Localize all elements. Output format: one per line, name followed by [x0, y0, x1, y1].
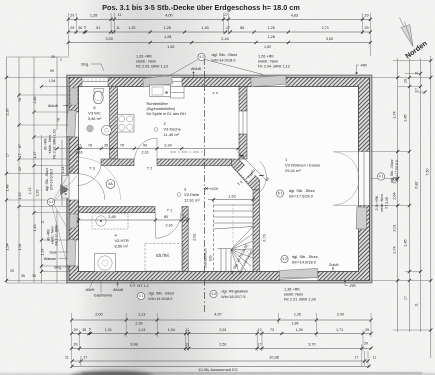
- svg-text:2: 2: [80, 144, 82, 148]
- stair treads upper: [214, 204, 254, 206]
- svg-text:Pos. 3.1 bis 3-5 Stb.-Decke üb: Pos. 3.1 bis 3-5 Stb.-Decke über Erdgesc…: [102, 3, 300, 12]
- svg-text:2,71: 2,71: [322, 26, 329, 30]
- svg-text:TT 2.06: TT 2.06: [385, 197, 389, 209]
- svg-text:Abluft: Abluft: [191, 67, 202, 71]
- svg-text:V3 Diele: V3 Diele: [184, 192, 200, 197]
- leader lines from 4.2: [167, 60, 198, 78]
- door T4 arc (diagonal): [260, 161, 267, 192]
- svg-text:17: 17: [404, 296, 408, 300]
- bottom scan shadow: [0, 370, 435, 375]
- section line (dash-dot vertical): [204, 58, 206, 312]
- svg-text:V3 Küche: V3 Küche: [164, 127, 182, 132]
- RK box right wall below door: [356, 207, 367, 229]
- left dim verticals: [6, 57, 8, 283]
- svg-text:1,52: 1,52: [228, 195, 235, 199]
- svg-text:11: 11: [118, 13, 122, 17]
- svg-text:78: 78: [57, 118, 61, 122]
- svg-text:Abluft: Abluft: [48, 104, 59, 108]
- svg-text:10,96₅ Aussenmaß EG: 10,96₅ Aussenmaß EG: [198, 367, 238, 372]
- svg-text:2,45: 2,45: [404, 114, 408, 121]
- svg-text:29: 29: [364, 342, 368, 346]
- svg-text:1,13: 1,13: [138, 312, 145, 316]
- RK box bottom window: [279, 268, 317, 279]
- svg-text:2,00: 2,00: [95, 312, 102, 316]
- section line horizontal stub: [170, 151, 205, 153]
- svg-text:8,50 m²: 8,50 m²: [115, 244, 129, 249]
- svg-text:V3 HTR: V3 HTR: [115, 238, 129, 243]
- circle 4.2 bottom + label: [281, 255, 288, 262]
- svg-text:3,00: 3,00: [326, 37, 333, 41]
- circle 4.1 left + rotated label: [47, 198, 54, 205]
- svg-text:dgl. Stb. -Sturz: dgl. Stb. -Sturz: [390, 159, 394, 182]
- north arrow: [400, 18, 414, 47]
- svg-text:4.1: 4.1: [139, 294, 144, 298]
- french door opening right: [359, 152, 370, 206]
- svg-text:2,34: 2,34: [164, 143, 171, 147]
- svg-text:2,81: 2,81: [193, 233, 197, 240]
- svg-text:V3 WC: V3 WC: [88, 111, 101, 116]
- svg-text:2,51: 2,51: [219, 343, 226, 347]
- svg-text:2,26: 2,26: [6, 109, 10, 116]
- svg-text:30: 30: [78, 26, 82, 30]
- svg-text:87: 87: [18, 144, 22, 148]
- bottom dim row 4: [72, 360, 368, 362]
- svg-text:4,83: 4,83: [291, 13, 298, 17]
- stair lower treads: [218, 248, 232, 250]
- svg-text:1,14: 1,14: [41, 249, 45, 256]
- diagonal dim line T4: [238, 152, 268, 182]
- svg-text:NT 1.2: NT 1.2: [137, 284, 148, 288]
- svg-text:80: 80: [164, 215, 168, 219]
- svg-text:22: 22: [18, 167, 22, 171]
- svg-text:1,13: 1,13: [28, 188, 32, 195]
- window WC top: [82, 78, 108, 87]
- small box HTR left wall: [70, 214, 78, 228]
- svg-text:11: 11: [41, 220, 45, 224]
- svg-text:Wasser: Wasser: [44, 257, 57, 261]
- svg-text:11: 11: [415, 71, 419, 75]
- floor drain WC: [87, 125, 94, 132]
- window WC left: [69, 112, 79, 137]
- kitchen counter right of sink: [171, 87, 185, 93]
- svg-text:3,46 m²: 3,46 m²: [88, 116, 102, 121]
- svg-text:29: 29: [51, 55, 55, 59]
- door T2 arc: [135, 138, 158, 161]
- stair walk line: [233, 204, 250, 252]
- svg-text:1,84: 1,84: [291, 322, 298, 326]
- svg-text:1,28: 1,28: [164, 35, 171, 39]
- svg-text:FE 2.03 .BRH 1,13: FE 2.03 .BRH 1,13: [136, 65, 168, 69]
- wall right of T1 door: [182, 207, 188, 272]
- svg-text:29: 29: [364, 26, 368, 30]
- svg-text:1,48: 1,48: [6, 185, 10, 192]
- svg-text:86: 86: [240, 26, 244, 30]
- svg-text:Abluft: Abluft: [113, 288, 124, 292]
- svg-text:2,74: 2,74: [392, 246, 396, 253]
- svg-text:1,26 +RK: 1,26 +RK: [136, 55, 152, 59]
- svg-text:8b +RK: 8b +RK: [44, 137, 48, 149]
- bottom dim row 3: [72, 347, 371, 349]
- svg-text:17: 17: [258, 328, 262, 332]
- kitchen sink unit: [150, 85, 171, 97]
- svg-text:2,44: 2,44: [221, 37, 228, 41]
- svg-text:29: 29: [74, 343, 78, 347]
- svg-text:T 2: T 2: [147, 166, 153, 171]
- svg-text:1,27: 1,27: [33, 152, 37, 159]
- svg-text:29: 29: [404, 79, 408, 83]
- french door leaf arcs: [333, 152, 359, 178]
- svg-text:V3 Wohnen / Essen: V3 Wohnen / Essen: [285, 163, 320, 168]
- RK box wohnen window: [251, 75, 287, 86]
- svg-text:17: 17: [355, 355, 359, 359]
- svg-text:1,38 +RK: 1,38 +RK: [284, 288, 300, 292]
- svg-text:1,54: 1,54: [6, 243, 10, 250]
- svg-text:dgl. Stb. -Sturz: dgl. Stb. -Sturz: [212, 52, 238, 57]
- svg-text:1,26: 1,26: [268, 26, 275, 30]
- svg-text:b/h=18.0/17.5: b/h=18.0/17.5: [222, 294, 246, 299]
- svg-text:1,54: 1,54: [49, 79, 56, 83]
- entrance direction triangle: [61, 185, 69, 195]
- svg-text:b/h=14.0/18.0: b/h=14.0/18.0: [212, 58, 237, 63]
- svg-text:2,16: 2,16: [166, 224, 173, 228]
- svg-text:2,00: 2,00: [337, 312, 344, 316]
- svg-text:17: 17: [415, 88, 419, 92]
- svg-text:12,91 m²: 12,91 m²: [184, 198, 200, 203]
- svg-text:Deckenloch: Deckenloch: [204, 248, 208, 267]
- svg-text:17: 17: [224, 13, 228, 17]
- svg-text:dgl. Stb. -Sturz: dgl. Stb. -Sturz: [289, 188, 315, 193]
- svg-text:b/h=14.0/18.0: b/h=14.0/18.0: [292, 260, 317, 265]
- svg-text:1,13: 1,13: [138, 328, 145, 332]
- outer insulation line: [67, 76, 372, 283]
- interior wall WC right: [110, 87, 118, 160]
- svg-text:T 1: T 1: [167, 208, 173, 213]
- svg-text:4.2: 4.2: [199, 55, 204, 59]
- svg-text:2,45: 2,45: [404, 239, 408, 246]
- svg-text:elektr.: Nein: elektr.: Nein: [258, 60, 278, 64]
- svg-text:73: 73: [270, 328, 274, 332]
- bottom dim row 1: [72, 319, 371, 321]
- svg-text:dgl. Stb. -Sturz: dgl. Stb. -Sturz: [149, 291, 175, 296]
- svg-text:elektr: Nein: elektr: Nein: [380, 194, 384, 212]
- svg-text:AWH: AWH: [86, 288, 95, 292]
- svg-text:7,50: 7,50: [426, 168, 430, 175]
- top dim row 2: [68, 31, 370, 33]
- svg-text:6,82: 6,82: [415, 181, 419, 188]
- circle 5.1 + sturz label: [276, 190, 283, 197]
- svg-text:5A: 5A: [108, 182, 113, 186]
- svg-text:dgl. Ringbalken: dgl. Ringbalken: [222, 289, 249, 294]
- svg-text:1,13: 1,13: [61, 167, 65, 174]
- top dim row 3: [68, 42, 370, 44]
- interior wall kitchen south: [157, 159, 231, 166]
- stove: [118, 115, 135, 133]
- svg-text:4.4: 4.4: [211, 292, 216, 296]
- svg-text:11: 11: [185, 328, 189, 332]
- svg-text:dgl. Stb. -Sturz: dgl. Stb. -Sturz: [292, 254, 318, 259]
- svg-text:EG: EG: [209, 255, 213, 260]
- svg-text:1,28: 1,28: [90, 13, 97, 17]
- svg-text:2,85: 2,85: [108, 215, 115, 219]
- svg-text:2,39: 2,39: [135, 322, 142, 326]
- top dim row 1: [68, 18, 370, 20]
- washing machine: [95, 254, 116, 272]
- svg-text:-RR: -RR: [349, 284, 356, 288]
- svg-text:b/h=17,5/18.0: b/h=17,5/18.0: [395, 160, 399, 182]
- room interior white fill: [69, 78, 370, 281]
- svg-text:75: 75: [120, 143, 124, 147]
- svg-text:11,40 m²: 11,40 m²: [164, 132, 180, 137]
- svg-text:3,00: 3,00: [106, 37, 113, 41]
- window kitchen top: [146, 78, 182, 87]
- svg-text:29: 29: [74, 328, 78, 332]
- svg-text:elektr: Nein: elektr: Nein: [284, 293, 303, 297]
- bottom dim row 2: [72, 333, 371, 335]
- svg-text:-RR: -RR: [360, 64, 367, 68]
- svg-text:2,01: 2,01: [392, 224, 396, 231]
- svg-text:5: 5: [89, 328, 91, 332]
- svg-text:1,13: 1,13: [33, 225, 37, 232]
- interior wall south of WC (T3 segment): [101, 159, 134, 166]
- svg-text:1,40: 1,40: [202, 26, 209, 30]
- svg-text:29: 29: [365, 328, 369, 332]
- svg-text:29: 29: [70, 13, 74, 17]
- svg-text:FE 2.10 .BRH: FE 2.10 .BRH: [55, 224, 59, 245]
- diagonal wall T4: [231, 159, 259, 190]
- interior dim line HTR: [79, 219, 189, 221]
- svg-text:1,04: 1,04: [168, 328, 175, 332]
- HTR north wall: [79, 207, 156, 213]
- svg-text:Zuluft: Zuluft: [329, 263, 339, 267]
- svg-text:Strg.: Strg.: [81, 63, 89, 67]
- svg-text:4.2: 4.2: [282, 257, 287, 261]
- svg-text:±0,00: ±0,00: [210, 187, 218, 191]
- svg-text:2,16: 2,16: [76, 151, 83, 155]
- kitchen / wohnen wall upper: [239, 87, 247, 112]
- svg-text:91: 91: [96, 26, 100, 30]
- svg-text:17: 17: [226, 26, 230, 30]
- svg-text:1,26: 1,26: [294, 312, 301, 316]
- svg-text:1,71: 1,71: [336, 328, 343, 332]
- right dim verticals: [397, 58, 399, 332]
- svg-text:29: 29: [364, 13, 368, 17]
- stair right wall: [253, 190, 260, 272]
- svg-text:11: 11: [185, 342, 189, 346]
- svg-text:FE 2.02 .BRH 1,50: FE 2.02 .BRH 1,50: [53, 129, 57, 158]
- svg-text:35: 35: [32, 274, 36, 278]
- circle 4.2 top + label: [198, 53, 205, 60]
- RK box WC left window: [66, 110, 76, 136]
- RK box kitchen window: [143, 75, 173, 86]
- svg-text:2,39: 2,39: [36, 190, 40, 197]
- outer wall ring (hatched masonry): [69, 78, 370, 281]
- svg-text:12: 12: [183, 215, 187, 219]
- right dim horizontal ticks: [371, 77, 431, 79]
- svg-text:Gastherme: Gastherme: [94, 294, 113, 298]
- circle 5A: [106, 180, 115, 189]
- svg-text:35: 35: [82, 328, 86, 332]
- svg-text:90: 90: [143, 143, 147, 147]
- gastherme: [92, 214, 128, 230]
- interior dim line WC/kitchen: [79, 148, 239, 150]
- circle 4.4 ringbalken: [210, 290, 217, 297]
- svg-text:1,26 +RK: 1,26 +RK: [258, 55, 274, 59]
- entrance door HT1.1 arc: [79, 174, 105, 200]
- circle 4.1 bottom left + label: [137, 292, 144, 299]
- svg-text:1,31: 1,31: [105, 328, 112, 332]
- svg-text:dgl. Stb. -Sturz: dgl. Stb. -Sturz: [45, 168, 49, 191]
- window HTR left: [69, 240, 79, 266]
- svg-text:17: 17: [258, 342, 262, 346]
- door T3 arc: [77, 161, 102, 186]
- svg-text:2,16: 2,16: [142, 151, 149, 155]
- svg-text:2,74: 2,74: [392, 111, 396, 118]
- svg-text:b/h=17,5/24.0: b/h=17,5/24.0: [289, 194, 314, 199]
- svg-text:2,79: 2,79: [263, 234, 267, 241]
- svg-text:5.1: 5.1: [278, 192, 283, 196]
- fold shadow band: [78, 0, 238, 375]
- svg-text:35: 35: [21, 274, 25, 278]
- svg-text:T 3: T 3: [89, 166, 95, 171]
- svg-text:1,26: 1,26: [268, 35, 275, 39]
- left dim horizontal ticks: [7, 77, 70, 79]
- svg-text:4.1: 4.1: [49, 200, 54, 204]
- svg-text:99: 99: [50, 69, 54, 73]
- svg-text:3,98: 3,98: [130, 343, 137, 347]
- bottom verticals: [71, 313, 73, 368]
- svg-text:29: 29: [10, 269, 14, 273]
- RK box HTR left window: [67, 239, 76, 265]
- svg-text:4.1: 4.1: [379, 175, 384, 179]
- entrance door second arc: [79, 158, 121, 200]
- svg-text:78: 78: [18, 98, 22, 102]
- stair boundary dashed: [213, 200, 215, 272]
- kitchen wall dots: [213, 92, 215, 94]
- entrance door opening HT 1.1: [69, 174, 79, 201]
- svg-text:11: 11: [415, 303, 419, 307]
- svg-text:2,3b +RK: 2,3b +RK: [375, 195, 379, 210]
- svg-text:Strg.: Strg.: [54, 266, 62, 270]
- svg-text:b/h=14.0/18.0: b/h=14.0/18.0: [49, 169, 53, 191]
- lower fold reinforcement: [70, 160, 245, 375]
- svg-text:elektr.: Nein: elektr.: Nein: [48, 135, 52, 154]
- svg-text:1,13: 1,13: [18, 193, 22, 200]
- svg-text:2,64: 2,64: [392, 192, 396, 199]
- svg-text:2,51: 2,51: [219, 328, 226, 332]
- entrance outside step: [62, 176, 70, 199]
- window bottom wall: [280, 272, 318, 281]
- svg-text:1,33: 1,33: [128, 26, 135, 30]
- svg-text:5: 5: [84, 26, 86, 30]
- door opening T4 in diagonal wall: [238, 163, 256, 181]
- window wohnen top: [252, 78, 286, 87]
- svg-text:für Spüle in EL des BH: für Spüle in EL des BH: [147, 111, 186, 116]
- svg-text:2: 2: [60, 58, 62, 62]
- svg-text:1,26: 1,26: [296, 328, 303, 332]
- Elt./Tel. dashed cabinet: [145, 244, 183, 272]
- svg-text:3,70: 3,70: [308, 343, 315, 347]
- toilet: [94, 89, 104, 93]
- svg-text:17: 17: [18, 154, 22, 158]
- svg-text:elektr.: Nein: elektr.: Nein: [136, 60, 156, 64]
- kitchen / wohnen wall lower: [239, 134, 247, 159]
- stair winder fan: [231, 227, 253, 250]
- svg-text:Gas: Gas: [50, 251, 57, 255]
- svg-text:2,86: 2,86: [33, 97, 37, 104]
- svg-text:FE 2.04 .BRH 1,12: FE 2.04 .BRH 1,12: [258, 65, 290, 69]
- bottom dim row 5: [72, 365, 369, 367]
- svg-text:11: 11: [373, 355, 377, 359]
- door T1 arc: [156, 213, 182, 239]
- svg-text:11: 11: [65, 355, 69, 359]
- svg-text:Elt./Tel.: Elt./Tel.: [156, 253, 169, 258]
- interior dim 1.52 stair: [208, 199, 253, 201]
- interior window kitchen/wohnen: [239, 111, 247, 134]
- svg-text:29,41 m²: 29,41 m²: [285, 168, 301, 173]
- svg-text:4,57: 4,57: [214, 312, 221, 316]
- svg-text:4,00: 4,00: [165, 13, 172, 17]
- svg-text:17: 17: [83, 355, 87, 359]
- svg-text:1,26: 1,26: [164, 26, 171, 30]
- svg-text:FE 2.01 .BRH 1,00: FE 2.01 .BRH 1,00: [284, 298, 316, 302]
- gray service box WC left wall: [70, 88, 78, 105]
- height reference mark: [204, 187, 210, 190]
- svg-text:1,52: 1,52: [167, 45, 174, 49]
- washbasin WC: [102, 125, 112, 135]
- svg-text:1,54: 1,54: [18, 244, 22, 251]
- svg-text:17: 17: [6, 153, 10, 157]
- NT 1.2: [130, 282, 135, 287]
- leader lines from left 4.1: [54, 160, 77, 200]
- svg-text:35: 35: [104, 143, 108, 147]
- svg-text:b/h=14.0/18.0: b/h=14.0/18.0: [149, 296, 174, 301]
- svg-text:1,52: 1,52: [264, 45, 271, 49]
- svg-text:11: 11: [116, 26, 120, 30]
- svg-text:78: 78: [88, 143, 92, 147]
- svg-text:10,38: 10,38: [269, 355, 279, 359]
- svg-text:29: 29: [70, 26, 74, 30]
